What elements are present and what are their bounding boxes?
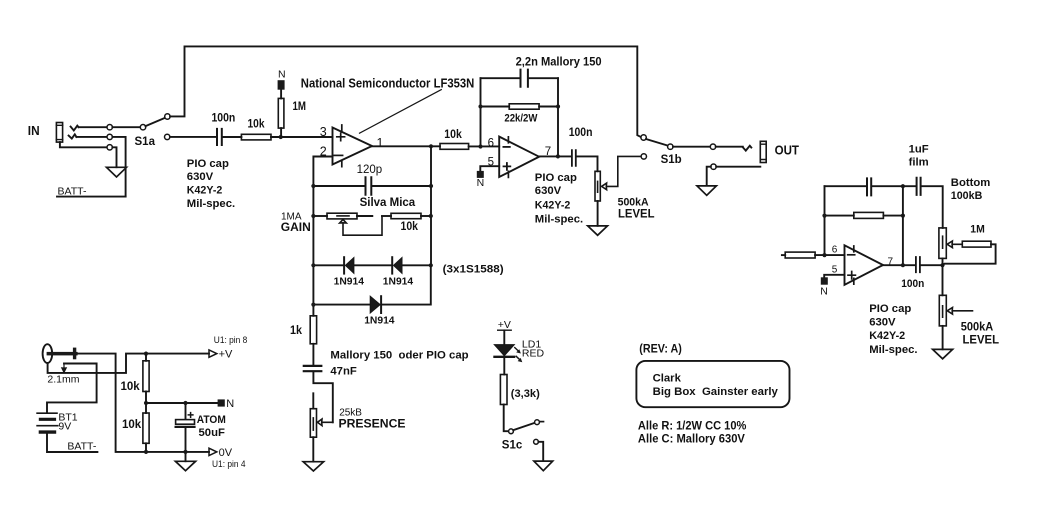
potentiometer 100kB track mark: [942, 236, 944, 248]
op-amp U1b power ticks: [507, 137, 509, 178]
svg-text:LEVEL: LEVEL: [618, 207, 655, 221]
wire atom cap top: [185, 403, 187, 419]
resistor 1M booster: [962, 241, 991, 247]
op-amp U1a minus sign: [334, 154, 342, 156]
wire booster fb left vertical: [824, 186, 826, 255]
potentiometer gain wiper arrow: [340, 217, 382, 236]
wire U1b feedback left vertical: [480, 78, 482, 146]
op-amp U2 minus sign: [848, 254, 855, 256]
switch S1c lower contact: [534, 439, 539, 444]
wire pin 2 feedback: [313, 157, 332, 316]
potentiometer level wiper arrow: [602, 156, 642, 189]
svg-text:120p: 120p: [357, 164, 383, 176]
node +V rail R-divider: [144, 352, 148, 356]
capacitor ATOM 50uF plus plate: [176, 420, 195, 425]
wire S1c to ground: [538, 442, 543, 461]
dc jack barrel ellipse: [43, 344, 53, 363]
capacitor 100n booster: [916, 257, 920, 272]
wire BATT- net: [57, 196, 126, 198]
wire U2 output: [883, 264, 942, 266]
switch S1a throw contact: [165, 114, 170, 119]
svg-text:PRESENCE: PRESENCE: [339, 418, 406, 430]
capacitor 100n output: [572, 150, 576, 166]
svg-text:1M: 1M: [293, 101, 307, 113]
node out wire contact: [710, 144, 715, 149]
op-amp U1a plus sign: [337, 133, 345, 140]
wire tip row: [79, 126, 107, 128]
svg-text:BATT-: BATT-: [67, 441, 96, 453]
svg-text:RED: RED: [522, 348, 545, 360]
arrow battery contact: [62, 364, 66, 373]
wire 120p row: [313, 185, 431, 187]
wire 22k row: [481, 106, 559, 108]
wire U1b feedback right vertical: [557, 78, 559, 156]
net N square power: [218, 399, 225, 406]
label plus ATOM: [188, 413, 193, 418]
svg-text:0V: 0V: [219, 447, 233, 459]
svg-text:1: 1: [377, 136, 384, 150]
ground power: [175, 461, 195, 470]
battery BT1 plates: [37, 413, 58, 432]
wire 100kB pot to level pot: [942, 258, 944, 295]
svg-text:1uF: 1uF: [909, 143, 929, 155]
svg-text:10k: 10k: [444, 129, 462, 141]
wire led to resistor: [503, 358, 505, 375]
net N square U2: [821, 277, 828, 284]
wire barrel contact: [48, 354, 209, 373]
wire 0V ground stub: [185, 452, 187, 461]
potentiometer level2 wiper arrow: [947, 308, 972, 315]
svg-text:1M: 1M: [970, 223, 985, 235]
potentiometer 500kA level2 body: [939, 295, 946, 326]
wire R1 to op-amp pin 3: [271, 136, 333, 138]
svg-text:2,2n Mallory 150: 2,2n Mallory 150: [516, 56, 602, 68]
wire bypass rail: [170, 46, 641, 137]
svg-text:630V: 630V: [187, 171, 214, 183]
wire level pot to ground: [597, 201, 599, 226]
potentiometer level2 track mark: [942, 306, 944, 317]
svg-text:Mil-spec.: Mil-spec.: [535, 213, 583, 225]
svg-text:K42Y-2: K42Y-2: [187, 185, 223, 197]
svg-text:OUT: OUT: [775, 144, 800, 158]
node tip contact: [107, 125, 112, 130]
wire atom cap bottom: [185, 428, 187, 452]
wire booster fb top row: [825, 185, 903, 187]
wire booster input stub: [782, 254, 785, 256]
wire sleeve to jack: [716, 166, 760, 168]
op-amp U1b plus sign: [504, 163, 511, 170]
annotation line LF353N: [360, 90, 442, 134]
svg-text:+V: +V: [219, 349, 233, 361]
svg-text:9V: 9V: [58, 421, 71, 433]
wire U1b output: [539, 155, 571, 157]
svg-text:(REV: A): (REV: A): [639, 343, 682, 355]
arrow +V: [209, 350, 217, 357]
wire U1a output: [372, 145, 440, 147]
wire to S1a pole: [112, 126, 140, 128]
svg-text:10k: 10k: [401, 221, 419, 233]
node U1b fb left: [478, 144, 482, 148]
LED LD1 triangle: [495, 345, 515, 356]
node N rail cap: [183, 401, 187, 405]
switch S1b blade: [646, 139, 668, 146]
node N rail left: [144, 401, 148, 405]
ground presence: [303, 462, 323, 471]
capacitor 47nF Mallory: [304, 366, 322, 371]
op-amp U2 power ticks: [853, 246, 855, 284]
wire divider bottom lead: [145, 443, 147, 452]
jack ring contact hook: [69, 134, 77, 138]
svg-text:BATT-: BATT-: [58, 186, 87, 198]
resistor 10k interstage: [440, 144, 469, 150]
svg-text:N: N: [226, 398, 234, 410]
op-amp U1b minus sign: [503, 146, 509, 148]
out jack tip hook: [743, 146, 752, 151]
capacitor ATOM 50uF minus plate: [176, 426, 195, 428]
ground input jack: [107, 167, 127, 177]
svg-text:PIO cap: PIO cap: [187, 158, 229, 170]
node 120p right: [429, 184, 433, 188]
resistor 1k: [310, 316, 316, 344]
diode D1 1N914: [344, 257, 354, 273]
resistor 3,3k: [500, 375, 507, 405]
svg-text:K42Y-2: K42Y-2: [869, 330, 905, 342]
ground level pot: [588, 226, 608, 235]
potentiometer gain track mark: [337, 215, 349, 217]
node 120p left: [311, 184, 315, 188]
switch S1b middle contact: [668, 144, 673, 149]
wire S1b to out node: [673, 146, 710, 148]
wire to 10k gain: [382, 215, 391, 217]
svg-text:Alle C: Mallory 630V: Alle C: Mallory 630V: [638, 433, 745, 445]
resistor 22k/2W: [509, 104, 539, 109]
wire sleeve to ground: [112, 147, 116, 167]
wire diode row 2: [313, 265, 430, 304]
switch S1a pole contact: [140, 125, 145, 130]
node booster out junction: [940, 263, 944, 267]
op-amp U1b: [499, 137, 539, 177]
wire +V underline: [498, 329, 512, 331]
svg-text:N: N: [477, 177, 485, 189]
resistor 10k input: [241, 134, 271, 140]
ground output jack: [697, 186, 716, 195]
switch S1b lower contact: [641, 154, 646, 159]
op-amp U2 plus sign: [848, 272, 855, 279]
wire right feedback vertical: [430, 146, 432, 265]
svg-text:1N914: 1N914: [364, 316, 395, 327]
svg-text:U1: pin 8: U1: pin 8: [214, 335, 248, 346]
svg-text:10k: 10k: [248, 119, 266, 131]
switch S1c throw mark: [540, 421, 543, 423]
svg-text:Silva Mica: Silva Mica: [360, 197, 416, 209]
wire 2,2n row: [481, 77, 559, 79]
svg-text:PIO cap: PIO cap: [869, 303, 911, 315]
svg-text:6: 6: [832, 244, 838, 255]
output jack J-OUT: [760, 141, 766, 162]
op-amp U1a power ticks: [341, 125, 343, 167]
svg-text:Alle R: 1/2W CC 10%: Alle R: 1/2W CC 10%: [638, 421, 747, 433]
svg-text:10k: 10k: [121, 381, 141, 393]
svg-text:PIO cap: PIO cap: [535, 172, 577, 184]
potentiometer level track mark: [597, 181, 599, 192]
svg-text:100n: 100n: [901, 278, 924, 290]
svg-text:(3x1S1588): (3x1S1588): [443, 264, 504, 276]
node 22k right: [556, 104, 560, 108]
svg-text:S1b: S1b: [661, 154, 682, 166]
svg-text:22k/2W: 22k/2W: [504, 113, 537, 125]
svg-text:GAIN: GAIN: [281, 220, 311, 234]
svg-text:U1: pin 4: U1: pin 4: [212, 459, 246, 470]
resistor 1M bias: [278, 98, 284, 128]
wire resistor to S1c: [504, 405, 509, 432]
potentiometer 500kA level body: [595, 171, 600, 201]
title box: [636, 361, 789, 407]
potentiometer 25kB presence body: [310, 409, 316, 438]
wire 10k gain right: [421, 215, 431, 217]
wire divider top leads: [145, 354, 147, 413]
svg-text:K42Y-2: K42Y-2: [535, 199, 571, 211]
ground S1c: [534, 461, 553, 471]
svg-text:100n: 100n: [212, 113, 236, 125]
node diode row left: [311, 263, 315, 267]
svg-text:630V: 630V: [535, 185, 562, 197]
wire presence to ground: [312, 437, 314, 461]
wire ring row: [76, 136, 107, 138]
wire N rail: [146, 402, 218, 404]
capacitor 1uF film: [917, 178, 921, 195]
wire diode row 1: [313, 264, 430, 266]
node fb res right: [901, 214, 905, 218]
dc jack pin tick: [73, 348, 76, 360]
wire presence top stub: [312, 393, 314, 407]
node 22k left: [478, 104, 482, 108]
switch S1b top contact: [641, 135, 646, 140]
wire sleeve row: [60, 142, 107, 147]
LED LD1 cathode bar: [495, 356, 515, 358]
wire 100n to level pot: [577, 156, 598, 171]
svg-text:1k: 1k: [290, 325, 303, 337]
svg-text:(3,3k): (3,3k): [511, 388, 540, 400]
wire sleeve to ground: [707, 167, 711, 186]
svg-text:100n: 100n: [569, 127, 593, 139]
ground booster: [933, 349, 953, 358]
node junction R1/R-bias: [279, 135, 283, 139]
wire gain pot right lead: [357, 215, 372, 217]
node sleeve contact: [107, 145, 112, 150]
switch S1c pole contact: [509, 429, 514, 434]
wire to out jack tip: [716, 146, 743, 148]
wire C1 to R1: [223, 136, 242, 138]
node 0V rail divider: [144, 450, 148, 454]
wire tip to 0V rail: [78, 354, 209, 452]
svg-text:47nF: 47nF: [330, 365, 356, 377]
node fb res left: [822, 214, 826, 218]
switch S1a blade: [146, 118, 166, 126]
node diode row right: [429, 263, 433, 267]
potentiometer bottom 100kB body: [939, 228, 946, 259]
diode D2 1N914: [392, 257, 402, 273]
svg-text:2.1mm: 2.1mm: [47, 374, 79, 386]
net N square U1b: [477, 171, 484, 178]
svg-text:N: N: [278, 69, 286, 81]
wire 1uF row: [903, 186, 943, 228]
wire +V to led: [503, 330, 505, 344]
switch S1a middle contact: [165, 134, 170, 139]
svg-text:3: 3: [320, 125, 327, 139]
svg-text:100kB: 100kB: [951, 190, 983, 202]
switch S1c blade: [513, 423, 535, 430]
svg-text:Mil-spec.: Mil-spec.: [187, 198, 235, 210]
node gain row left: [311, 214, 315, 218]
dc jack center pin bar: [47, 352, 78, 356]
wire 1M leads: [280, 90, 282, 137]
capacitor 2,2n: [521, 70, 528, 87]
svg-text:Bottom: Bottom: [951, 177, 991, 189]
svg-text:Clark: Clark: [653, 373, 682, 385]
node fb top right: [901, 184, 905, 188]
node U2 out fb: [901, 263, 905, 267]
svg-text:25kB: 25kB: [339, 408, 362, 419]
arrow 0V: [209, 448, 217, 455]
wire booster fb resistor row: [825, 215, 903, 217]
jack tip contact hook: [71, 126, 79, 131]
svg-text:Big Box Gainster early: Big Box Gainster early: [653, 386, 779, 398]
wire 1M return: [943, 244, 996, 265]
capacitor 100n input: [217, 129, 222, 145]
op-amp U1a: [333, 128, 373, 165]
svg-text:6: 6: [488, 138, 494, 150]
potentiometer presence track mark: [312, 418, 314, 430]
wire gain row left: [313, 215, 327, 217]
svg-text:+V: +V: [498, 319, 511, 331]
svg-text:National Semiconductor LF353N: National Semiconductor LF353N: [301, 77, 475, 91]
potentiometer 1MA gain body: [327, 213, 357, 219]
resistor 10k divider top: [143, 361, 149, 392]
dc jack battery contact arm with arrow: [47, 364, 97, 413]
wire cap to presence wiper: [313, 372, 332, 422]
switch S1c blade contact: [535, 420, 540, 425]
wire 10k to U1b pin6: [469, 145, 500, 147]
wire pin 5: [480, 166, 499, 171]
potentiometer 25kB presence wiper arrow: [317, 419, 332, 426]
net N square top: [278, 80, 285, 90]
node output junction: [429, 144, 433, 148]
svg-text:S1a: S1a: [135, 136, 156, 148]
node pin6 junction: [822, 253, 826, 257]
svg-text:LEVEL: LEVEL: [963, 333, 1000, 347]
input jack J-IN: [56, 123, 62, 143]
diode D3 1N914: [370, 296, 381, 313]
wire ring to BATT- rail: [112, 137, 125, 197]
wire battery minus: [47, 434, 97, 452]
wire booster fb right vertical: [902, 186, 904, 265]
capacitor 120p: [366, 177, 372, 195]
LED light arrows: [515, 348, 520, 360]
svg-text:S1c: S1c: [502, 440, 523, 452]
svg-text:IN: IN: [28, 124, 40, 138]
svg-text:1N914: 1N914: [383, 277, 414, 288]
wire U2 pin 5: [824, 275, 844, 278]
wire 1k to cap: [312, 344, 314, 365]
resistor 10k gain: [391, 213, 421, 218]
capacitor booster fb: [867, 178, 871, 195]
wire to C1: [170, 136, 216, 138]
svg-text:N: N: [820, 286, 828, 298]
resistor 10k divider bottom: [143, 413, 149, 443]
node output/feedback: [556, 154, 560, 158]
svg-text:50uF: 50uF: [199, 427, 225, 439]
resistor booster feedback: [854, 212, 884, 218]
node diode row 2 left: [311, 303, 315, 307]
svg-text:1N914: 1N914: [334, 277, 365, 288]
node 0V rail cap: [183, 450, 187, 454]
svg-text:ATOM: ATOM: [197, 414, 226, 426]
svg-text:film: film: [909, 156, 929, 168]
potentiometer 100kB wiper arrow: [947, 241, 961, 248]
svg-text:630V: 630V: [869, 316, 896, 328]
svg-text:Mallory 150 oder PIO cap: Mallory 150 oder PIO cap: [330, 350, 468, 362]
svg-text:10k: 10k: [122, 419, 142, 431]
node ring contact: [107, 134, 112, 139]
svg-text:Mil-spec.: Mil-spec.: [869, 344, 917, 356]
op-amp U2: [845, 245, 884, 284]
node out sleeve contact: [711, 164, 716, 169]
wire to U2 pin 6: [815, 254, 844, 256]
wire level2 to ground: [942, 326, 944, 349]
resistor booster input: [785, 252, 815, 258]
node gain row right: [429, 214, 433, 218]
